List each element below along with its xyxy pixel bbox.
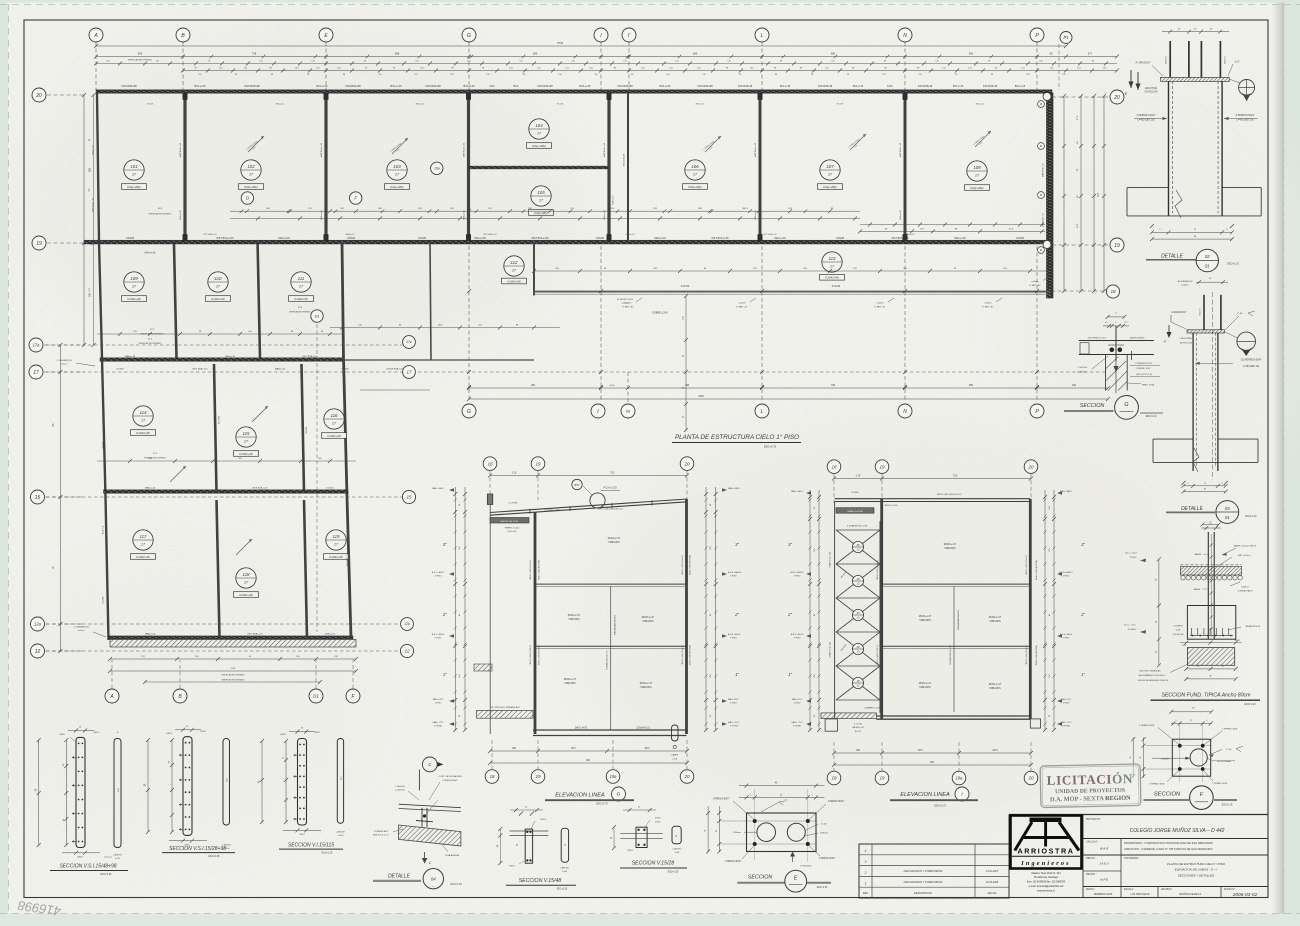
svg-text:ADMETR N-35: ADMETR N-35 — [1246, 625, 1261, 628]
svg-text:L: L — [761, 409, 764, 415]
top dimension lines — [96, 45, 1066, 47]
elevG interior vertical — [610, 586, 612, 730]
svg-text:MAA e=18: MAA e=18 — [278, 237, 290, 240]
svg-text:114: 114 — [140, 410, 148, 415]
svg-text:MAG.+15.2: MAG.+15.2 — [792, 698, 803, 701]
SECCION V.15/28 — [611, 807, 687, 874]
svg-text:2Φ18: 2Φ18 — [200, 730, 206, 733]
svg-text:WKT BXA e=15: WKT BXA e=15 — [192, 368, 208, 371]
svg-text:1": 1" — [735, 672, 739, 677]
svg-text:SEGUN MECANICA DE SUELOS: SEGUN MECANICA DE SUELOS — [1138, 679, 1169, 682]
svg-text:18: 18 — [856, 679, 860, 683]
svg-text:1 PISO: 1 PISO — [794, 703, 801, 705]
svg-text:Providencia, Santiago: Providencia, Santiago — [1034, 876, 1059, 879]
svg-text:MURA e=17: MURA e=17 — [989, 616, 1002, 619]
svg-text:ESC=1:10: ESC=1:10 — [451, 883, 463, 886]
svg-text:K15/28: K15/28 — [347, 237, 355, 240]
svg-text:2 PERNOS A42°: 2 PERNOS A42° — [442, 779, 458, 782]
svg-text:VIGA A MESA: VIGA A MESA — [445, 854, 459, 857]
elevI X-braced column — [834, 502, 836, 719]
svg-text:20: 20 — [1027, 776, 1034, 781]
svg-text:4: 4 — [865, 849, 867, 853]
svg-text:61.5/178: 61.5/178 — [219, 595, 221, 604]
svg-text:MAA e=18: MAA e=18 — [145, 252, 156, 255]
svg-text:MURA e=17: MURA e=17 — [919, 615, 932, 618]
svg-text:M16 Φ 1/2"x1.5": M16 Φ 1/2"x1.5" — [373, 834, 389, 837]
svg-text:JMUÑOZ-CIE-REV-2: JMUÑOZ-CIE-REV-2 — [1179, 893, 1202, 896]
svg-text:K1042+98: K1042+98 — [136, 555, 150, 559]
svg-text:ELEVACION DE LINEAS : G – I: ELEVACION DE LINEAS : G – I — [1175, 868, 1218, 872]
svg-text:N.L.L +10.4: N.L.L +10.4 — [1125, 553, 1137, 555]
svg-text:L=450 (DET.18): L=450 (DET.18) — [1243, 366, 1259, 368]
svg-text:W.A.R: W.A.R — [1100, 847, 1109, 851]
svg-text:7.53: 7.53 — [610, 471, 615, 474]
svg-text:e-mail: arriostra@entelchile.n: e-mail: arriostra@entelchile.net — [1029, 885, 1064, 888]
svg-text:SECCION V.S.I.15/48+98: SECCION V.S.I.15/48+98 — [59, 864, 116, 870]
elevG floor beams — [535, 583, 687, 585]
svg-text:MURA e=17: MURA e=17 — [564, 678, 577, 681]
svg-text:MAG. -75.3: MAG. -75.3 — [792, 721, 803, 724]
svg-text:DESCRIPCION: DESCRIPCION — [914, 891, 932, 895]
svg-text:1: 1 — [865, 882, 867, 886]
svg-text:S.FUND.: S.FUND. — [1128, 629, 1137, 631]
svg-text:A: A — [93, 33, 98, 39]
svg-text:GROUTING: GROUTING — [1180, 338, 1192, 340]
svg-text:SUELO: SUELO — [1241, 586, 1249, 588]
elevG columns — [534, 512, 537, 734]
svg-text:3Φ18: 3Φ18 — [509, 865, 515, 868]
svg-text:7534: 7534 — [557, 41, 564, 45]
SECCION E detail — [705, 783, 845, 893]
SECCION FUND TIPICA — [1125, 524, 1261, 706]
svg-text:798: 798 — [831, 384, 836, 387]
svg-text:S. FUND: S. FUND — [793, 726, 802, 728]
svg-text:WKE BXA e=15: WKE BXA e=15 — [252, 487, 268, 490]
svg-text:MAA e=18: MAA e=18 — [474, 237, 486, 240]
svg-text:BXA e=15: BXA e=15 — [580, 85, 592, 88]
svg-text:1 PERNO Φ3/4": 1 PERNO Φ3/4" — [725, 860, 742, 863]
svg-text:Φ16mm: Φ16mm — [1161, 757, 1169, 760]
svg-text:J.A.E.V: J.A.E.V — [1099, 862, 1110, 866]
bottom grid circles — [111, 660, 113, 689]
svg-text:TABIANOS: TABIANOS — [564, 682, 576, 685]
svg-text:2 PISO: 2 PISO — [435, 638, 442, 640]
svg-text:119: 119 — [333, 534, 341, 539]
svg-text:DETALLE: DETALLE — [388, 874, 411, 880]
svg-text:BXA e=15: BXA e=15 — [317, 85, 329, 88]
svg-text:MAA e=13: MAA e=13 — [145, 633, 156, 636]
elevI roof — [835, 498, 1031, 500]
svg-text:Φ16mm: Φ16mm — [820, 831, 828, 834]
svg-text:K1042+98: K1042+98 — [127, 297, 141, 301]
svg-text:FEBRERO-2006: FEBRERO-2006 — [1094, 893, 1113, 896]
svg-text:2073: 2073 — [992, 750, 998, 752]
svg-text:3"-40°: 3"-40° — [1226, 749, 1232, 751]
logo glyph — [1030, 818, 1062, 823]
svg-text:ESC=1:75: ESC=1:75 — [596, 803, 608, 806]
svg-text:A. SELECCION: A. SELECCION — [617, 298, 633, 301]
svg-text:L 60x60x5: L 60x60x5 — [395, 786, 406, 788]
svg-text:REVISO :: REVISO : — [1086, 873, 1097, 876]
svg-text:SECCION FUND. TIPICA Ancho 80c: SECCION FUND. TIPICA Ancho 80cm — [1162, 693, 1252, 699]
svg-text:ARRIOSTRA: ARRIOSTRA — [1017, 846, 1074, 855]
svg-text:S. FUND: S. FUND — [1062, 726, 1071, 728]
svg-text:L ANCHO GAL 2x240: L ANCHO GAL 2x240 — [500, 520, 518, 523]
svg-text:107: 107 — [826, 164, 834, 169]
svg-text:12: 12 — [404, 649, 410, 654]
svg-text:6Φ18: 6Φ18 — [59, 733, 65, 736]
svg-text:586: 586 — [533, 52, 538, 56]
elevG right dim stack — [705, 487, 707, 730]
svg-text:PARA REVISION Y COMENTARIOS: PARA REVISION Y COMENTARIOS — [904, 870, 943, 873]
svg-text:2": 2" — [787, 612, 792, 617]
svg-text:ELEVACION LINEA: ELEVACION LINEA — [555, 793, 605, 799]
svg-text:TABIANOS: TABIANOS — [989, 687, 1001, 690]
svg-text:20: 20 — [683, 774, 690, 779]
svg-text:586: 586 — [693, 52, 698, 56]
svg-text:1 PISO: 1 PISO — [1063, 703, 1070, 705]
divider wall rooms 104/105 — [469, 166, 610, 169]
svg-text:SECCION: SECCION — [748, 875, 773, 881]
svg-text:BXA e=13: BXA e=13 — [325, 633, 336, 636]
svg-text:2M'S L=873: 2M'S L=873 — [575, 727, 588, 729]
svg-text:5: 5 — [1175, 720, 1176, 722]
svg-text:G: G — [467, 33, 471, 39]
licitacion stamp — [1040, 764, 1141, 808]
svg-text:M: M — [1040, 248, 1042, 252]
svg-text:2: 2 — [864, 871, 867, 875]
svg-text:BXA e=15: BXA e=15 — [899, 210, 902, 220]
svg-text:NAMP e=10mm (EST.): NAMP e=10mm (EST.) — [1234, 545, 1256, 548]
svg-text:(2x6+40): (2x6+40) — [508, 531, 517, 533]
svg-text:L=200: L=200 — [338, 835, 345, 837]
svg-text:MAA e=18: MAA e=18 — [346, 233, 355, 236]
svg-text:L=150mm: L=150mm — [1077, 371, 1087, 373]
svg-text:K15/28: K15/28 — [1016, 237, 1024, 240]
svg-text:COST. CA SOLDADURA: COST. CA SOLDADURA — [439, 775, 463, 778]
svg-text:MURA e=17: MURA e=17 — [989, 683, 1002, 686]
svg-text:3M'S L=300 (27x5.9): 3M'S L=300 (27x5.9) — [682, 555, 684, 575]
svg-text:1 RAM 40°xL=300: 1 RAM 40°xL=300 — [829, 551, 832, 568]
hatched column below beam — [1105, 355, 1107, 391]
svg-text:BXA e=15: BXA e=15 — [754, 210, 757, 220]
svg-text:15: 15 — [406, 495, 412, 500]
svg-text:ESC=1:15: ESC=1:15 — [817, 887, 828, 889]
svg-text:K13/28: K13/28 — [126, 237, 134, 240]
svg-text:1 PERNO Φ3/4": 1 PERNO Φ3/4" — [1222, 727, 1238, 730]
svg-text:116: 116 — [331, 413, 339, 418]
svg-text:K32(+38)2: K32(+38)2 — [688, 185, 702, 189]
svg-text:A DILATACION: A DILATACION — [1178, 280, 1193, 283]
svg-text:ELEVACION S.B. 1%: ELEVACION S.B. 1% — [949, 645, 952, 664]
svg-text:01: 01 — [1205, 264, 1210, 269]
svg-text:A.S.S.+ANG.5: A.S.S.+ANG.5 — [790, 571, 804, 574]
svg-text:ESC=1:25: ESC=1:25 — [209, 855, 221, 858]
svg-text:P. MET. 40°: P. MET. 40° — [622, 306, 633, 308]
svg-text:P. MET. 40°: P. MET. 40° — [736, 306, 747, 308]
svg-text:BXA e=15: BXA e=15 — [92, 145, 95, 155]
mid dimension rows — [241, 192, 253, 204]
svg-text:MURA e=17: MURA e=17 — [608, 537, 621, 540]
svg-text:P RIG/20/2: P RIG/20/2 — [801, 865, 813, 867]
left vdim — [1158, 559, 1160, 666]
svg-text:AMBS: AMBS — [1194, 588, 1201, 591]
svg-text:92: 92 — [1050, 52, 1053, 56]
svg-text:3Φ18: 3Φ18 — [77, 856, 83, 859]
svg-text:M: M — [1040, 193, 1042, 197]
svg-text:e=5cm: e=5cm — [78, 630, 85, 632]
svg-text:(D=7.0): (D=7.0) — [855, 731, 862, 733]
svg-text:K1042+98: K1042+98 — [211, 297, 225, 301]
svg-text:303: 303 — [89, 292, 92, 297]
svg-text:340: 340 — [1072, 384, 1077, 387]
svg-text:104: 104 — [535, 123, 543, 128]
svg-text:T PISO: T PISO — [1129, 557, 1136, 559]
svg-text:MAT BXA e=13: MAT BXA e=13 — [1042, 212, 1045, 226]
SECCION G detail — [1064, 313, 1163, 420]
svg-text:Φ16mm: Φ16mm — [733, 831, 741, 834]
svg-text:CALCULO :: CALCULO : — [1086, 841, 1099, 844]
svg-text:R. GRACKUT: R. GRACKUT — [1136, 62, 1151, 65]
svg-text:WKT BXA e=15: WKT BXA e=15 — [483, 233, 496, 236]
svg-text:G: G — [1124, 402, 1128, 408]
elevI columns — [880, 499, 883, 719]
dim rows above beam — [534, 270, 1050, 272]
svg-text:L: L — [761, 33, 764, 39]
svg-text:COLEGIO JORGE MUÑOZ SILVA: COLEGIO JORGE MUÑOZ SILVA – D 442 — [1130, 827, 1225, 834]
svg-text:18: 18 — [487, 461, 493, 466]
svg-text:Φ12mm: Φ12mm — [1199, 308, 1202, 315]
svg-text:MJB ARMADURA SEL: MJB ARMADURA SEL — [957, 609, 960, 630]
svg-text:BXA e=15: BXA e=15 — [696, 103, 704, 106]
elevI floor beams — [882, 583, 1031, 585]
elevation linea I — [671, 460, 1085, 808]
svg-text:TABIANOS: TABIANOS — [568, 618, 580, 621]
svg-text:BXA: BXA — [514, 85, 519, 88]
svg-text:12: 12 — [35, 649, 41, 655]
svg-text:15 40°: 15 40° — [821, 824, 827, 826]
svg-text:3Φ16: 3Φ16 — [299, 833, 305, 836]
svg-text:fono: 02-3435818 fax: 02-2056: fono: 02-3435818 fax: 02-2056703 — [1027, 881, 1066, 884]
svg-text:BXA e=15: BXA e=15 — [195, 85, 207, 88]
svg-text:BXA e=15: BXA e=15 — [464, 85, 476, 88]
svg-text:BXA e=15: BXA e=15 — [976, 103, 984, 106]
svg-text:12a: 12a — [34, 622, 42, 627]
svg-text:(13x13x-18): (13x13x-18) — [1173, 634, 1184, 636]
DETALLE 02/01 — [1125, 29, 1262, 272]
svg-text:3M'S L=300 (27x5.9): 3M'S L=300 (27x5.9) — [682, 645, 684, 665]
svg-text:VERIFICAR EN TERRENO: VERIFICAR EN TERRENO — [149, 213, 173, 216]
svg-text:K15/28: K15/28 — [557, 104, 563, 106]
svg-text:17: 17 — [33, 370, 39, 376]
svg-text:CONTENIDO :: CONTENIDO : — [1124, 857, 1140, 860]
svg-text:MAA e=18: MAA e=18 — [654, 237, 666, 240]
elevation linea G — [432, 457, 742, 806]
svg-text:MAT BXA e=15: MAT BXA e=15 — [754, 142, 757, 157]
svg-text:7273: 7273 — [917, 750, 923, 752]
SECCION F detail — [1130, 708, 1243, 810]
svg-text:PROYECTO :: PROYECTO : — [1086, 818, 1102, 821]
svg-text:K32/13/49+98: K32/13/49+98 — [624, 153, 626, 166]
svg-text:WKT BXA e=15: WKT BXA e=15 — [302, 355, 318, 358]
SECCION V.S.I.15/28+98 — [145, 726, 235, 858]
svg-text:K73/28 BXA e=15: K73/28 BXA e=15 — [386, 368, 404, 371]
svg-text:ESC=1:15: ESC=1:15 — [1222, 805, 1233, 807]
svg-text:e=5cm: e=5cm — [61, 364, 68, 366]
svg-text:109: 109 — [130, 276, 138, 281]
svg-text:MAG. -75.3: MAG. -75.3 — [1061, 721, 1072, 724]
svg-text:K32/13/28+98: K32/13/28+98 — [537, 85, 553, 88]
M column circles on right wall — [1038, 101, 1045, 108]
svg-text:x=5mm: x=5mm — [1181, 285, 1188, 287]
svg-text:2xPL L=200 (20x140+12): 2xPL L=200 (20x140+12) — [598, 509, 623, 511]
svg-text:K13/J10: K13/J10 — [832, 286, 841, 288]
svg-text:BXA e=15: BXA e=15 — [780, 85, 791, 88]
svg-text:MAT BXA e=15: MAT BXA e=15 — [179, 142, 182, 157]
steel tee — [421, 808, 423, 827]
svg-text:L ANCHO: L ANCHO — [560, 866, 569, 869]
svg-text:A: A — [109, 694, 114, 700]
svg-text:ICL5/WE: ICL5/WE — [509, 503, 518, 505]
svg-text:x=5mm: x=5mm — [1031, 281, 1038, 283]
svg-text:577: 577 — [1088, 52, 1093, 56]
svg-text:TABIANOS: TABIANOS — [989, 620, 1001, 623]
svg-text:MAA e=18: MAA e=18 — [626, 233, 635, 236]
svg-text:IL.12mm L=200: IL.12mm L=200 — [544, 510, 560, 512]
svg-text:x=5mm: x=5mm — [984, 303, 991, 305]
svg-text:19: 19 — [879, 776, 885, 781]
svg-text:106: 106 — [691, 164, 699, 169]
svg-text:WKT BXA e=15: WKT BXA e=15 — [763, 233, 776, 236]
canes detail — [672, 725, 679, 741]
svg-text:M: M — [1040, 102, 1042, 106]
svg-text:115: 115 — [243, 431, 251, 436]
svg-text:112: 112 — [511, 260, 519, 265]
svg-text:48: 48 — [856, 543, 860, 547]
svg-text:MAG.+15.2: MAG.+15.2 — [1061, 698, 1072, 701]
svg-text:L=450 (DET.18): L=450 (DET.18) — [1237, 119, 1254, 122]
band2 bottom wall (17 line) — [100, 358, 344, 362]
svg-text:3": 3" — [788, 542, 792, 547]
svg-text:1 PERNO Φ3/4": 1 PERNO Φ3/4" — [1149, 783, 1165, 786]
svg-text:18: 18 — [831, 464, 837, 469]
svg-text:K73/28: K73/28 — [418, 237, 426, 240]
svg-text:M: M — [1040, 144, 1042, 148]
svg-text:M.P.B: M.P.B — [1100, 878, 1108, 882]
svg-text:118: 118 — [243, 572, 251, 577]
svg-text:7.53: 7.53 — [953, 474, 958, 477]
svg-text:MAT BXA e=15: MAT BXA e=15 — [320, 142, 323, 157]
right dim stack — [1063, 96, 1065, 291]
svg-text:2 PISO: 2 PISO — [730, 576, 737, 578]
svg-text:15: 15 — [35, 495, 41, 501]
band2 vertical walls — [99, 242, 102, 358]
svg-text:K1042+98: K1042+98 — [507, 279, 521, 283]
svg-text:BXA e=15: BXA e=15 — [603, 210, 606, 220]
svg-text:x=5mm: x=5mm — [738, 303, 745, 305]
svg-text:BTC: BTC — [575, 484, 580, 487]
elevI below dims — [834, 752, 1031, 754]
svg-text:2 PERNOS Φ1/2": 2 PERNOS Φ1/2" — [1135, 362, 1152, 365]
svg-text:BXA e=15: BXA e=15 — [320, 210, 323, 220]
svg-text:3Φ18: 3Φ18 — [540, 818, 546, 821]
SECCION V.15/48 — [497, 807, 576, 891]
svg-text:A.S.S.+860.3: A.S.S.+860.3 — [728, 633, 741, 636]
svg-text:F: F — [354, 196, 357, 201]
svg-text:L 70x70x6: L 70x70x6 — [1077, 367, 1088, 369]
top band: bottom wall line 19 — [84, 240, 1052, 244]
svg-text:CA BROCKETA+: CA BROCKETA+ — [1129, 337, 1145, 340]
svg-text:K32(+38)2: K32(+38)2 — [534, 211, 548, 215]
svg-text:PRR 1 VIGA: PRR 1 VIGA — [1142, 384, 1155, 387]
svg-text:3M'S L=300 (27x5.9): 3M'S L=300 (27x5.9) — [877, 645, 879, 665]
elevI top circles — [827, 460, 841, 474]
svg-text:13-02-2007: 13-02-2007 — [986, 870, 999, 873]
svg-text:D1: D1 — [315, 314, 320, 318]
elevG left edge + parapet — [489, 494, 491, 734]
svg-text:K3U: K3U — [490, 85, 495, 88]
svg-text:K1042+98: K1042+98 — [239, 593, 253, 597]
svg-text:2006-03-02: 2006-03-02 — [1232, 892, 1258, 898]
hatch under footing — [1187, 648, 1234, 666]
svg-text:K32(+38)2: K32(+38)2 — [823, 185, 837, 189]
SECCION V.S.I.15/48+98 — [35, 727, 128, 876]
svg-text:K32/13/28+98: K32/13/28+98 — [918, 86, 933, 88]
svg-text:MAT BXA e=15: MAT BXA e=15 — [603, 142, 606, 157]
SECCION V.I.15/115 — [259, 728, 346, 855]
elevI bottom circles — [833, 742, 835, 771]
top band: top wall line 20 — [96, 90, 1052, 94]
svg-text:19a: 19a — [434, 167, 440, 171]
elevI bottom chord + hatch — [876, 715, 1030, 717]
svg-text:MAA e=18: MAA e=18 — [125, 355, 136, 358]
svg-text:1 RAM 40°xL=300: 1 RAM 40°xL=300 — [829, 641, 832, 658]
svg-text:17: 17 — [407, 370, 412, 375]
svg-text:BXA e=15: BXA e=15 — [179, 210, 182, 220]
svg-text:Φ12mm: Φ12mm — [1165, 56, 1168, 64]
svg-text:3.19: 3.19 — [512, 471, 517, 474]
svg-text:CA TORNILLO+CUT: CA TORNILLO+CUT — [1088, 337, 1107, 340]
svg-text:K13U: K13U — [887, 86, 893, 88]
left vertical dim chain — [83, 95, 85, 345]
lines 17a / 17 dashed — [46, 344, 402, 346]
svg-text:3M'S L=300 (27x5.9): 3M'S L=300 (27x5.9) — [1026, 645, 1028, 665]
svg-text:PERFIL T=202: PERFIL T=202 — [505, 528, 520, 530]
ARRIOSTRA logo box — [1011, 816, 1082, 869]
svg-text:SECCIONES Y DETALLES: SECCIONES Y DETALLES — [1178, 873, 1214, 877]
svg-text:K1042+98: K1042+98 — [294, 297, 308, 301]
vertical walls of top band — [97, 93, 99, 241]
svg-text:K32(+38)2: K32(+38)2 — [532, 144, 546, 148]
svg-text:TABIANOS: TABIANOS — [642, 620, 654, 623]
svg-text:L ANCHO: L ANCHO — [673, 847, 682, 850]
svg-text:19a: 19a — [610, 774, 618, 779]
svg-text:2Φ18: 2Φ18 — [627, 849, 633, 852]
svg-text:555: 555 — [89, 167, 92, 172]
elevG ground hatches — [477, 710, 533, 718]
svg-text:WKT BXA e=15: WKT BXA e=15 — [203, 233, 216, 236]
svg-text:592: 592 — [969, 52, 974, 56]
svg-text:SECCION: SECCION — [1154, 792, 1181, 798]
DETALLE 03/01 column — [1153, 278, 1262, 526]
rooms 114-116 — [133, 406, 153, 426]
svg-text:G: G — [467, 409, 471, 415]
svg-text:K15/28: K15/28 — [306, 426, 308, 433]
svg-text:102: 102 — [247, 164, 255, 169]
svg-text:VERIFICAR EN TERRENO: VERIFICAR EN TERRENO — [222, 673, 246, 676]
svg-text:DIBUJO :: DIBUJO : — [1086, 857, 1096, 860]
svg-text:586: 586 — [969, 384, 974, 387]
